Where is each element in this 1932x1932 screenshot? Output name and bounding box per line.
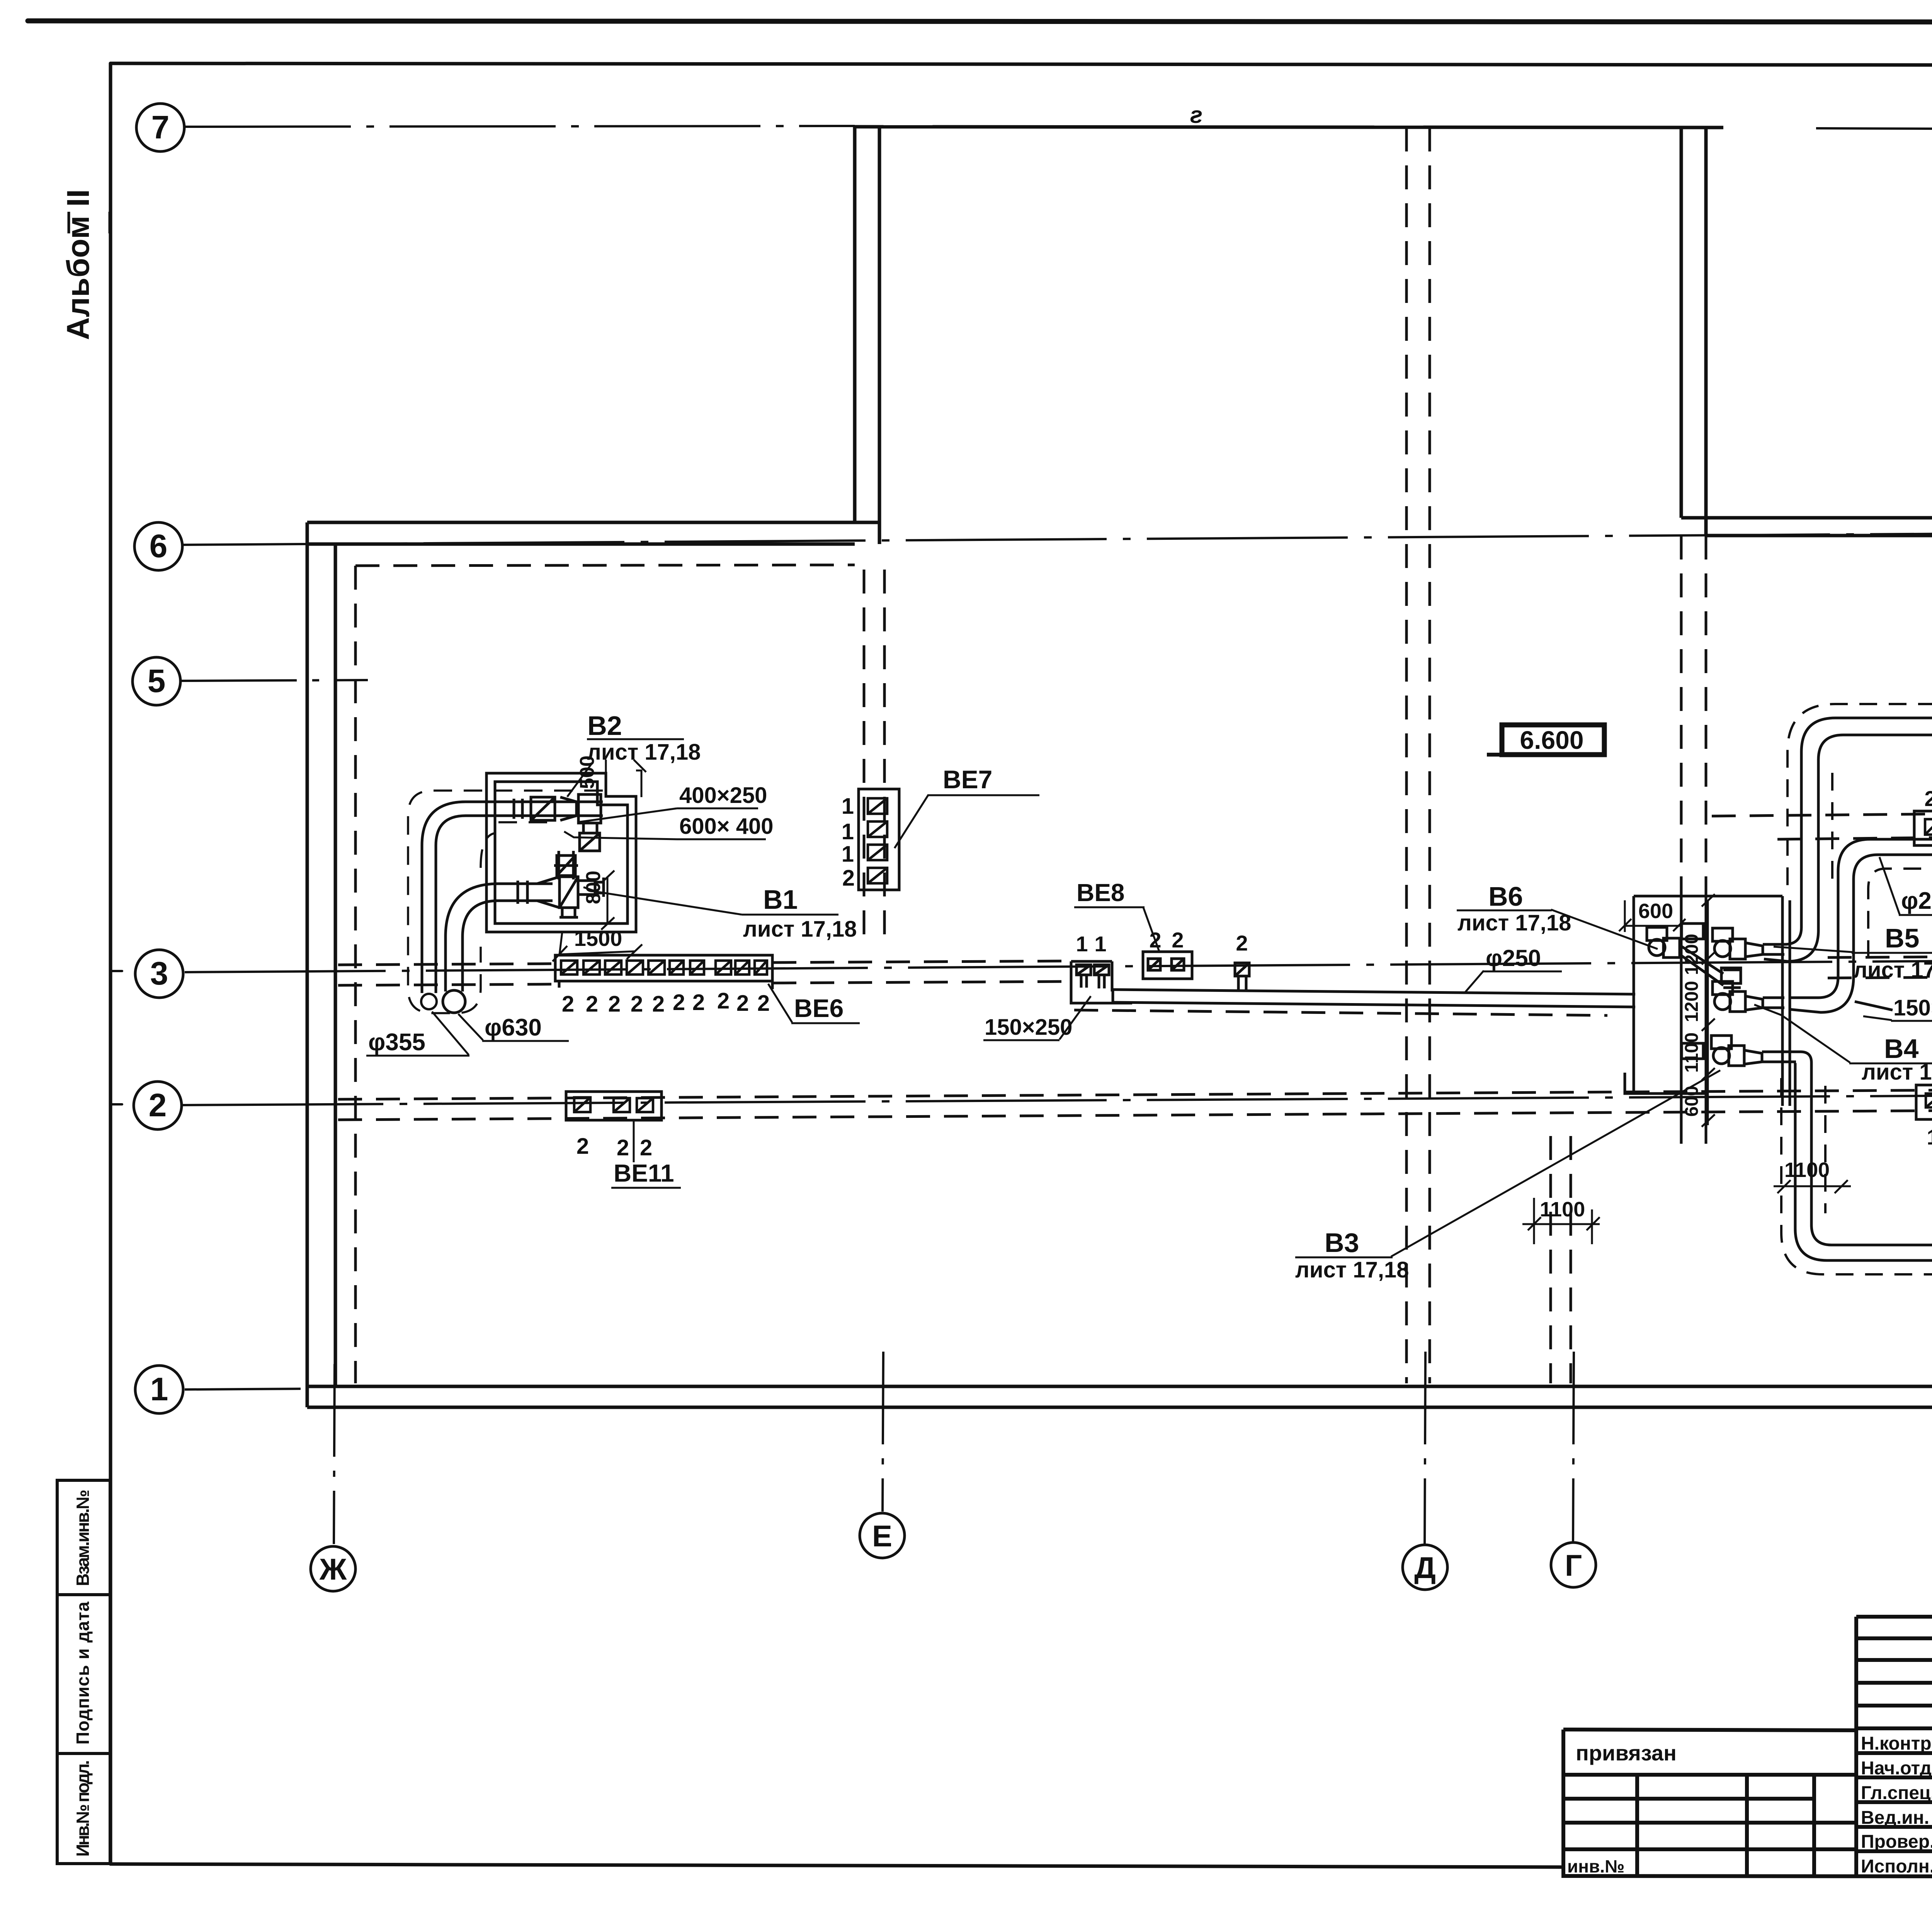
svg-text:1100: 1100 — [1784, 1158, 1830, 1182]
wall: wing top along axis 7 — [855, 127, 1723, 128]
fan V6 — [1647, 927, 1741, 988]
svg-text:φ250: φ250 — [1901, 888, 1932, 914]
svg-text:ВЕ7: ВЕ7 — [943, 765, 992, 794]
shaft risers — [1681, 895, 1741, 1144]
svg-text:Подпись и дата: Подпись и дата — [73, 1602, 93, 1745]
svg-text:В1: В1 — [763, 884, 798, 915]
axis 7 line right segment — [1816, 128, 1932, 130]
wall: axis 6 right section (double) — [1681, 518, 1932, 536]
svg-text:1200: 1200 — [1682, 934, 1702, 975]
axis circle 1 — [135, 1366, 183, 1413]
svg-text:1: 1 — [842, 794, 854, 819]
svg-text:2: 2 — [617, 1135, 629, 1160]
svg-text:1500: 1500 — [574, 926, 622, 951]
label 600x400 — [564, 814, 774, 839]
dashed duct pair along axis 2 — [338, 1088, 1932, 1120]
svg-text:привязан: привязан — [1576, 1741, 1677, 1765]
axis circle D — [1403, 1545, 1447, 1590]
svg-text:Взам.инв.№: Взам.инв.№ — [73, 1490, 93, 1586]
svg-text:Нач.отд.: Нач.отд. — [1861, 1758, 1932, 1779]
svg-text:φ355: φ355 — [368, 1029, 425, 1056]
wall: bottom along axis 1 (double) — [307, 1386, 1932, 1407]
sheet outer border top — [28, 21, 1932, 22]
duct end circle f630 — [443, 990, 465, 1013]
frame tick axis3 — [111, 971, 122, 1104]
svg-text:Е: Е — [872, 1519, 892, 1553]
svg-text:2: 2 — [842, 866, 855, 891]
duct 600x400 vertical from V2 down — [554, 851, 578, 879]
axis 2 line — [182, 1093, 1932, 1105]
duct end circle f355 — [421, 994, 437, 1009]
dashed duct pair along axis 3 west — [338, 964, 555, 985]
dim 1100 lower mid — [1774, 1158, 1851, 1193]
svg-text:6.600: 6.600 — [1520, 726, 1583, 754]
dashed duct pair along axis 3 east — [1828, 954, 1932, 978]
fan room wall inner — [495, 782, 628, 923]
dashed casing of lower f250 — [1781, 1078, 1932, 1274]
svg-text:Провер.: Провер. — [1861, 1832, 1932, 1852]
fan V2 assembly (top duct) — [496, 794, 603, 851]
fan V5 — [1713, 928, 1784, 959]
axis 3 line — [185, 957, 1932, 972]
duct f250 to BE9 — [1789, 835, 1932, 1012]
dashed wall below axis G (pair) — [1551, 1136, 1571, 1383]
vertical album label — [61, 189, 110, 340]
label 400x250 — [577, 783, 767, 822]
dashed casing around round ducts — [408, 791, 603, 1013]
svg-text:1: 1 — [1927, 1125, 1932, 1149]
svg-text:2: 2 — [1236, 931, 1248, 955]
label V2 — [567, 711, 701, 797]
label BE6 — [768, 984, 860, 1023]
svg-text:ВЕ6: ВЕ6 — [794, 994, 844, 1022]
svg-text:600: 600 — [1682, 1086, 1702, 1117]
svg-text:150×250: 150×250 — [1893, 995, 1932, 1020]
axis circle 6 — [134, 522, 182, 570]
svg-text:6: 6 — [150, 528, 168, 564]
svg-text:Н.контр.: Н.контр. — [1861, 1733, 1932, 1754]
svg-text:1: 1 — [150, 1371, 168, 1407]
privyazan box internals — [1563, 1775, 1856, 1849]
dashed hidden wall line in top-right block (upper) — [1712, 810, 1932, 816]
left stamp column boxes — [57, 1480, 110, 1864]
label V1 — [583, 884, 857, 942]
svg-text:Альбом II: Альбом II — [61, 189, 96, 340]
label BE11 — [611, 1120, 681, 1188]
svg-text:лист 17,18: лист 17,18 — [587, 740, 701, 765]
dashed hidden wall line in top-right block (lower) — [1777, 833, 1932, 839]
node enclosure — [1625, 896, 1790, 1106]
fan V4 — [1713, 981, 1784, 1012]
axis 7 line — [185, 126, 855, 127]
svg-text:В2: В2 — [587, 711, 622, 741]
svg-text:2: 2 — [640, 1135, 652, 1160]
dim 600 node top — [1619, 900, 1685, 932]
svg-text:лист 17,18: лист 17,18 — [1853, 957, 1932, 983]
axis circle 2 — [134, 1082, 182, 1129]
label V3 — [1295, 1070, 1720, 1282]
dashed duct pair along axis 3 mid — [772, 961, 1073, 983]
svg-text:В3: В3 — [1325, 1228, 1359, 1258]
svg-text:7: 7 — [151, 109, 170, 145]
svg-text:2: 2 — [673, 990, 685, 1015]
svg-text:600× 400: 600× 400 — [679, 814, 774, 839]
svg-text:1200: 1200 — [1682, 981, 1702, 1022]
axis circle E — [860, 1513, 905, 1558]
dashed roof edge top-left horizontal — [355, 565, 855, 566]
axis G vertical line — [1573, 1352, 1574, 1543]
label f250 on duct — [1464, 945, 1562, 993]
svg-text:2: 2 — [608, 992, 621, 1017]
svg-text:2: 2 — [652, 992, 665, 1017]
svg-text:Г: Г — [1565, 1548, 1582, 1582]
dashed casing of f250 run — [1868, 869, 1932, 966]
label BE7 — [895, 765, 1039, 848]
duct bend f630 to V1 — [446, 884, 553, 992]
svg-text:400×250: 400×250 — [679, 783, 767, 808]
svg-text:2: 2 — [586, 992, 598, 1017]
label f630 — [458, 1014, 569, 1041]
label V4 — [1754, 1005, 1932, 1085]
label 150x250 east — [1863, 995, 1932, 1021]
dim 1500 under fan room — [553, 932, 642, 961]
wall: left outer (double, axis Zh) — [307, 522, 335, 1407]
duct f315 run with end circle — [1764, 718, 1932, 961]
fan V3 — [1711, 1036, 1796, 1066]
svg-text:150×250: 150×250 — [985, 1015, 1072, 1040]
duct 150x250 east from node — [1855, 1002, 1893, 1010]
svg-text:г: г — [1190, 102, 1202, 128]
fan room wall outer — [486, 773, 636, 932]
wall: wing right (double) — [1681, 128, 1706, 536]
dashed roof edge left vertical — [354, 566, 357, 1383]
BE8 box with grilles 2 2 — [1143, 952, 1192, 979]
dashed casing of f315 run — [1787, 704, 1932, 889]
dashed wing wall continuation below axis 6 (pair) — [1681, 536, 1706, 895]
label 150x250 west — [983, 996, 1091, 1040]
svg-text:2: 2 — [757, 991, 770, 1016]
svg-text:2: 2 — [717, 988, 730, 1014]
svg-text:600: 600 — [1638, 900, 1673, 923]
svg-text:Гл.спец.: Гл.спец. — [1861, 1783, 1932, 1803]
svg-text:В5: В5 — [1885, 923, 1919, 953]
axis 6 line — [182, 530, 1932, 545]
axis D vertical line — [1425, 1352, 1425, 1545]
svg-text:1: 1 — [842, 842, 854, 867]
svg-text:2: 2 — [1924, 786, 1932, 811]
svg-text:φ250: φ250 — [1486, 945, 1541, 971]
svg-text:1: 1 — [1094, 932, 1106, 956]
label BE8 — [1074, 879, 1159, 951]
dim chain vertical left of node — [1702, 894, 1715, 1127]
dashed line under f250 duct — [1074, 1010, 1607, 1015]
axis circle 5 — [133, 657, 180, 705]
axis circle G — [1551, 1543, 1596, 1587]
svg-text:Исполн.: Исполн. — [1861, 1856, 1932, 1877]
svg-text:2: 2 — [562, 992, 574, 1017]
svg-text:лист 17,18: лист 17,18 — [743, 917, 857, 942]
duct f250 lower run from V3 — [1795, 1052, 1932, 1260]
wall: axis 6 left section (double) — [307, 522, 879, 544]
bracket with grilles 1 1 — [1071, 961, 1132, 1003]
svg-text:инв.№: инв.№ — [1567, 1856, 1624, 1876]
dim 800 inside room — [601, 871, 614, 930]
svg-text:1: 1 — [842, 819, 854, 844]
inner frame bottom — [111, 1864, 1561, 1867]
svg-text:2: 2 — [692, 990, 705, 1015]
svg-text:В6: В6 — [1488, 881, 1523, 912]
svg-text:3: 3 — [150, 955, 168, 992]
svg-text:Ж: Ж — [319, 1552, 347, 1586]
axis Zh vertical line — [334, 1364, 335, 1544]
inner frame top — [111, 63, 1932, 66]
label f355 — [366, 1012, 469, 1056]
svg-text:2: 2 — [631, 992, 643, 1017]
svg-text:2: 2 — [149, 1087, 167, 1123]
inner frame left — [109, 63, 112, 1864]
axis E vertical line — [883, 1352, 883, 1512]
fan V1 assembly (lower duct) — [495, 877, 604, 917]
axis 1 line — [185, 1389, 309, 1389]
svg-text:1100: 1100 — [1540, 1198, 1585, 1221]
dashed wall below axis D (pair) — [1406, 128, 1430, 1383]
svg-text:Д: Д — [1414, 1551, 1436, 1585]
duct f250 horizontal (axis 3) to node — [1113, 990, 1635, 1007]
svg-text:лист 17,18: лист 17,18 — [1458, 910, 1571, 935]
svg-text:ВЕ11: ВЕ11 — [614, 1159, 674, 1187]
svg-text:1100: 1100 — [1682, 1032, 1702, 1073]
axis circle 7 — [136, 104, 184, 151]
svg-text:Инв.№ подл.: Инв.№ подл. — [73, 1760, 93, 1857]
dim 500 at fan room top right — [606, 760, 646, 797]
axis circle Zh — [311, 1546, 355, 1591]
axis circle 3 — [135, 950, 183, 998]
svg-text:1: 1 — [1076, 932, 1088, 956]
duct bend f355 to V2 — [422, 802, 496, 993]
label f250 upper — [1879, 857, 1932, 915]
dashed shaft on axis E above BE7 (pair) — [864, 570, 884, 934]
label V5 — [1774, 923, 1932, 983]
names table rows — [1856, 1728, 1932, 1851]
svg-text:5: 5 — [148, 663, 166, 699]
svg-text:Вед.ин.: Вед.ин. — [1861, 1808, 1929, 1828]
svg-text:2: 2 — [736, 991, 749, 1016]
wall: wing left (double) — [855, 127, 879, 544]
svg-text:2: 2 — [577, 1134, 589, 1159]
single grille right of BE8 — [1235, 963, 1249, 990]
title block outer — [1563, 1617, 1932, 1877]
svg-text:лист 17,18: лист 17,18 — [1295, 1257, 1409, 1282]
svg-text:2: 2 — [1172, 928, 1184, 952]
axis 5 line — [181, 680, 368, 681]
label V6 — [1457, 881, 1658, 949]
dim 1100 lower left — [1522, 1198, 1600, 1244]
svg-text:ВЕ8: ВЕ8 — [1077, 879, 1125, 906]
svg-text:φ630: φ630 — [485, 1014, 542, 1041]
